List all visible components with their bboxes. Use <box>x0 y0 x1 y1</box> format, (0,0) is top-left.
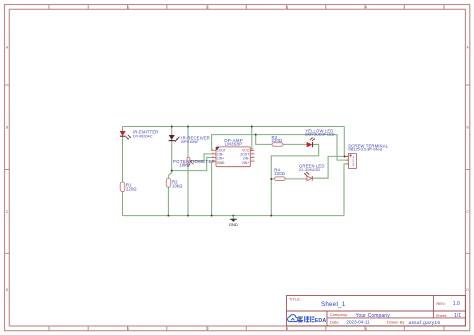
svg-text:DB125-3.5-3P-GN-S: DB125-3.5-3P-GN-S <box>348 147 382 152</box>
svg-text:1: 1 <box>127 327 129 331</box>
wire pot wiper to op-amp 1IN- <box>190 154 213 161</box>
svg-text:assaf.gazy16: assaf.gazy16 <box>409 320 441 326</box>
svg-text:3: 3 <box>352 163 354 167</box>
svg-text:DY-IR204C: DY-IR204C <box>133 133 153 138</box>
frame left ruler ticks <box>5 85 10 253</box>
svg-text:2IN+: 2IN+ <box>242 161 249 165</box>
junction 1OUT / R3 feeder <box>255 134 257 136</box>
frame top ruler ticks <box>49 5 444 10</box>
svg-text:1: 1 <box>127 5 129 9</box>
potentiometer RP1 <box>187 157 194 165</box>
junction bottom rail GND flag <box>232 215 234 217</box>
op-amp U1 LM358P <box>212 147 255 167</box>
op-amp label <box>224 138 243 147</box>
potentiometer label <box>173 159 215 168</box>
wire R4 to green LED <box>285 178 307 180</box>
IR receiver photodiode D2 <box>169 135 180 142</box>
svg-text:Your Company: Your Company <box>356 313 391 319</box>
junction bottom rail R4 drop <box>270 215 272 217</box>
wire receiver node to op-amp 1IN+ <box>172 157 213 170</box>
svg-text:XL-304UGD: XL-304UGD <box>299 167 320 172</box>
wire VCC riser to op-amp <box>250 127 252 151</box>
wire R4 left stub <box>271 178 274 180</box>
yellow LED label <box>305 129 335 137</box>
svg-text:GND: GND <box>217 161 225 165</box>
EasyEDA logo characters <box>298 316 327 324</box>
IR emitter label <box>133 130 158 139</box>
wire op-amp GND drop <box>212 161 213 216</box>
wire terminal pin3 to ground rail <box>344 164 349 216</box>
svg-text:220Ω: 220Ω <box>126 187 137 192</box>
wire left emitter branch <box>122 127 124 216</box>
wire potentiometer branch <box>187 127 189 216</box>
frame row letters left <box>6 46 9 293</box>
junction receiver node <box>171 170 173 172</box>
op-amp pin numbers <box>212 149 254 162</box>
wire receiver branch <box>168 127 171 216</box>
svg-text:220Ω: 220Ω <box>274 171 285 176</box>
svg-text:TITLE:: TITLE: <box>289 297 301 301</box>
yellow LED D3 <box>307 137 315 147</box>
junction top rail VCC riser <box>251 126 253 128</box>
wire R3 to yellow LED <box>283 143 307 145</box>
svg-text:Sheet:: Sheet: <box>436 314 448 318</box>
svg-text:Company:: Company: <box>330 313 348 317</box>
junction top rail receiver <box>171 126 173 128</box>
junction top rail pot <box>187 126 189 128</box>
IR emitter LED D1 <box>120 131 131 139</box>
frame right ruler ticks <box>465 85 469 253</box>
svg-text:1.0: 1.0 <box>453 301 460 307</box>
screw terminal label <box>348 143 388 151</box>
wire GND bottom rail <box>123 215 345 217</box>
svg-text:10kΩ: 10kΩ <box>179 162 189 167</box>
frame bottom ruler ticks <box>49 326 444 331</box>
resistor R1 220 <box>120 182 125 192</box>
IR receiver label <box>181 136 210 145</box>
wire R4 node ground drop <box>270 179 272 216</box>
junction bottom rail op-amp GND <box>211 215 213 217</box>
resistor R4 220 <box>275 177 286 181</box>
svg-text:Drawn By:: Drawn By: <box>387 320 405 324</box>
svg-text:2: 2 <box>207 327 209 331</box>
svg-text:2: 2 <box>207 5 209 9</box>
svg-text:10kΩ: 10kΩ <box>172 184 182 189</box>
svg-text:Date:: Date: <box>330 320 340 324</box>
junction bottom rail R7 <box>167 215 169 217</box>
svg-text:EDA: EDA <box>315 318 327 324</box>
svg-text:4: 4 <box>365 327 367 331</box>
svg-text:3: 3 <box>286 5 288 9</box>
wire yellow LED loop to R4 node <box>271 145 318 180</box>
svg-text:2023-04-11: 2023-04-11 <box>346 320 370 325</box>
svg-text:220Ω: 220Ω <box>272 138 283 143</box>
svg-text:BPV10NF: BPV10NF <box>181 139 199 144</box>
wire 1OUT riser to terminal pin2 <box>212 135 349 161</box>
green LED label <box>299 164 325 172</box>
svg-text:REV:: REV: <box>437 302 446 306</box>
junction terminal pin1 node <box>344 155 346 157</box>
screw terminal CN1 <box>346 154 356 169</box>
resistor R4 label <box>274 167 285 176</box>
wire top rail to terminal pin1 riser <box>343 127 345 157</box>
title block outline <box>287 296 466 326</box>
wire green LED to terminal pin1 <box>312 156 348 178</box>
title block field labels <box>289 297 447 324</box>
svg-text:GND: GND <box>229 222 238 227</box>
wire VCC top rail <box>123 126 345 128</box>
resistor R1 label <box>126 183 137 192</box>
frame column numbers bottom <box>127 327 366 331</box>
screw terminal pin numbers <box>352 155 354 166</box>
junction R4 left node <box>270 178 272 180</box>
svg-text:Sheet_1: Sheet_1 <box>321 301 346 308</box>
svg-text:3: 3 <box>286 327 288 331</box>
junction bottom rail pot <box>187 215 189 217</box>
frame row letters right <box>466 46 469 293</box>
svg-text:3A8Y3UD3F LED: 3A8Y3UD3F LED <box>305 132 335 137</box>
resistor R2 10k <box>166 178 171 187</box>
frame column numbers top <box>127 5 366 9</box>
EasyEDA logo cloud <box>288 315 298 322</box>
wire R3 feeder <box>256 135 272 145</box>
resistor R2 label <box>172 180 182 189</box>
op-amp pin labels <box>217 149 250 165</box>
svg-text:LM358P: LM358P <box>225 142 243 147</box>
resistor R3 label <box>272 135 283 143</box>
ground flag GND <box>229 216 238 227</box>
svg-text:4: 4 <box>365 5 367 9</box>
resistor R3 220 <box>272 143 283 147</box>
green LED D4 <box>304 172 312 181</box>
svg-text:1/1: 1/1 <box>454 313 461 319</box>
